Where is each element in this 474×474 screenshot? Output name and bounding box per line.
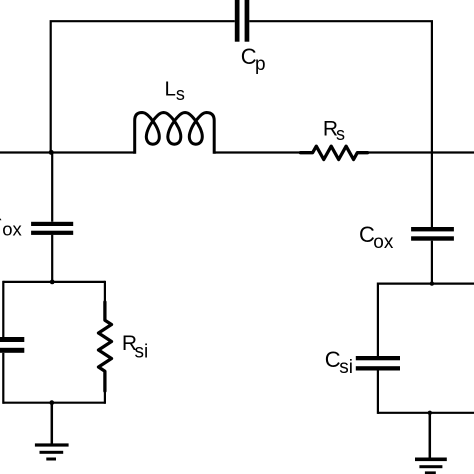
left box left edge upper	[2, 281, 4, 337]
ground left	[35, 443, 69, 460]
svg-text:si: si	[135, 342, 149, 363]
svg-text:L: L	[165, 78, 176, 101]
wire main horizontal right segment	[357, 151, 474, 153]
node junction dot left box bottom	[49, 400, 54, 405]
svg-text:p: p	[255, 54, 266, 75]
svg-text:ox: ox	[373, 232, 394, 253]
wire left vertical riser to top	[51, 21, 235, 152]
node junction dot right box top	[430, 281, 434, 285]
svg-text:C: C	[325, 347, 341, 372]
ground right	[415, 458, 447, 474]
left box left edge lower	[2, 353, 4, 404]
node junction dot left box top	[50, 280, 55, 285]
right box top edge	[378, 283, 474, 285]
wire top right from Cp to right riser	[249, 21, 432, 227]
inductor Ls	[135, 113, 215, 154]
svg-text:si: si	[339, 357, 353, 378]
svg-text:ox: ox	[2, 218, 22, 239]
right box left edge lower	[377, 370, 379, 414]
wire main horizontal middle segment	[214, 151, 304, 153]
wire stem to left ground	[51, 403, 54, 445]
resistor Rs	[301, 146, 368, 159]
left box right edge lower	[104, 390, 106, 404]
capacitor Csi left (cut off at edge)	[0, 337, 24, 353]
node A junction dot left	[49, 150, 54, 155]
node junction dot right box bottom	[428, 411, 432, 415]
svg-text:s: s	[176, 84, 185, 104]
capacitor Cp	[235, 0, 250, 42]
wire left branch down to Cox	[51, 153, 53, 222]
wire left from Cox down to box	[51, 235, 53, 282]
capacitor Cox left	[31, 222, 73, 235]
right box left edge upper	[377, 283, 379, 357]
capacitor Cox right	[411, 227, 454, 241]
svg-text:s: s	[336, 124, 345, 144]
left box bottom edge	[3, 402, 105, 404]
resistor Rsi	[99, 302, 112, 391]
right box bottom edge	[378, 412, 474, 414]
left box top edge	[3, 281, 105, 283]
wire stem to right ground	[429, 413, 432, 459]
wire right from Cox down to box	[431, 241, 433, 284]
capacitor Csi right	[356, 356, 400, 371]
wire main horizontal left segment	[0, 151, 135, 153]
left box right edge upper	[104, 281, 106, 303]
